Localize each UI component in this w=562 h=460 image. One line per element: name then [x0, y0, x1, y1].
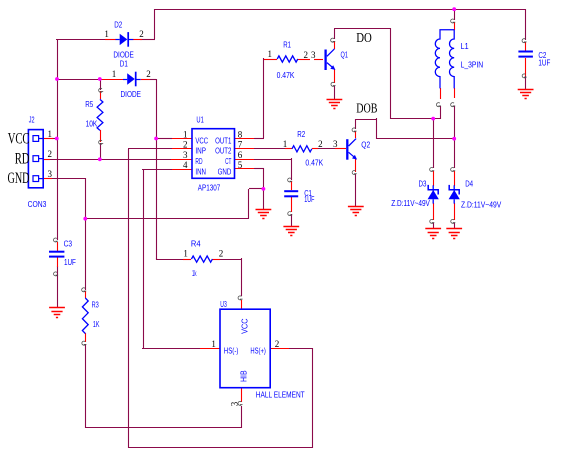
- junction GND row: [83, 217, 87, 221]
- junction DOB L1 right: [452, 137, 456, 141]
- svg-text:5: 5: [238, 160, 243, 170]
- svg-text:10K: 10K: [86, 120, 98, 129]
- pin stub R4 left: [183, 259, 191, 261]
- label GND black: [8, 170, 30, 187]
- pin stub R1 right: [298, 59, 310, 61]
- label R3 1K: [93, 320, 100, 329]
- wire Q1 collector up: [334, 29, 336, 39]
- U1 pin names: [195, 136, 231, 176]
- label L_3PIN: [461, 60, 484, 69]
- pin number U3-3 rotated: [229, 401, 239, 406]
- wire U3 HS+ row: [289, 348, 313, 350]
- pin stub Q2 base: [335, 148, 346, 150]
- svg-text:DO: DO: [356, 30, 372, 45]
- wire GND J2 pin3: [52, 178, 85, 180]
- pin number R2-1: [283, 139, 288, 149]
- wire D3 branch down: [433, 119, 435, 168]
- svg-text:2: 2: [47, 149, 52, 159]
- svg-text:R3: R3: [92, 300, 100, 309]
- wire OUT1 riser to R1: [263, 58, 265, 138]
- pin number U1-7: [238, 140, 243, 150]
- label R4 1k: [192, 269, 197, 278]
- svg-text:3: 3: [311, 50, 316, 60]
- wire INP vertical: [128, 149, 130, 448]
- label R4: [191, 239, 201, 248]
- pin mark Q2 emitter: [352, 170, 357, 174]
- label C2 1UF: [538, 59, 550, 68]
- wire C2 drop: [525, 9, 527, 89]
- junction U1 GND: [262, 187, 266, 191]
- svg-text:HS(+): HS(+): [250, 346, 266, 355]
- pin number Q2-3: [333, 139, 338, 149]
- wire DO to L1 left: [390, 118, 440, 120]
- wire GND jog right: [249, 188, 263, 190]
- svg-text:J2: J2: [29, 116, 35, 125]
- pin stub U1-4: [172, 169, 192, 171]
- junction D1 cathode VCC line: [154, 137, 158, 141]
- junction R5 bottom RD: [98, 157, 102, 161]
- svg-text:1: 1: [183, 129, 188, 139]
- diode D2: [116, 32, 134, 47]
- svg-text:D2: D2: [114, 20, 122, 29]
- label D3: [419, 179, 427, 188]
- svg-text:R4: R4: [191, 239, 201, 248]
- wire L1 right lower to D4: [454, 106, 456, 168]
- svg-text:2: 2: [139, 29, 144, 39]
- ground D3: [425, 229, 441, 239]
- label L1: [461, 42, 469, 51]
- svg-text:VCC: VCC: [195, 136, 208, 145]
- wire R5 bottom to RD: [100, 143, 102, 159]
- pin number D2-2: [139, 29, 144, 39]
- label D2 DIODE: [113, 51, 133, 60]
- label R2: [297, 130, 305, 139]
- pin stub R3 top: [85, 291, 87, 298]
- U3 pin name VCC rotated: [240, 318, 249, 334]
- op-amp U1 AP1307 body: [192, 129, 235, 179]
- pin number U1-3: [183, 150, 188, 160]
- wire D4 bottom to ground: [454, 223, 456, 229]
- svg-text:R2: R2: [297, 130, 305, 139]
- label U1: [196, 115, 204, 124]
- pin stub D3 bottom: [433, 203, 435, 220]
- pin number R2-2: [318, 139, 323, 149]
- pin stub Q2 collector: [355, 131, 357, 138]
- svg-text:1: 1: [112, 69, 117, 79]
- wire L1 left lower: [440, 106, 442, 119]
- pin stub U1-1: [172, 138, 192, 140]
- svg-text:L1: L1: [461, 42, 469, 51]
- pin mark C3 bottom: [54, 272, 59, 276]
- pin mark C2 top: [522, 39, 527, 43]
- junction R5 top: [98, 77, 102, 81]
- pin stub U1-6: [234, 159, 254, 161]
- wire R4 row: [156, 259, 242, 261]
- ground C1: [283, 227, 299, 236]
- svg-text:VCC: VCC: [240, 318, 249, 334]
- resistor R4: [191, 256, 212, 262]
- label R1: [283, 40, 291, 49]
- pin mark R5 top: [99, 88, 104, 92]
- ground U1 pin5: [256, 210, 272, 219]
- svg-text:INN: INN: [195, 167, 206, 176]
- svg-text:0.47K: 0.47K: [305, 158, 323, 167]
- ground C3: [49, 308, 65, 318]
- wire INN to U1 pin4: [142, 169, 172, 171]
- svg-text:1: 1: [267, 49, 272, 59]
- svg-text:RD: RD: [15, 150, 30, 167]
- wire U1 pin8 stub: [254, 138, 264, 140]
- pin stub R2 right: [312, 148, 318, 150]
- pin stub C3 top: [57, 242, 59, 251]
- pin mark L1 right bottom: [451, 103, 456, 107]
- junction DO L1 left: [431, 117, 435, 121]
- pin stub R3 bottom: [85, 333, 87, 342]
- svg-text:HALL ELEMENT: HALL ELEMENT: [256, 390, 305, 399]
- svg-text:Q1: Q1: [341, 51, 349, 60]
- pin stub D1 right: [141, 79, 150, 81]
- label AP1307: [198, 184, 221, 193]
- svg-text:3: 3: [183, 150, 188, 160]
- wire D3 bottom to ground: [433, 223, 435, 229]
- connector J2: [28, 130, 43, 188]
- pin mark D3 bottom: [430, 219, 435, 223]
- wire Q2 collector up: [355, 119, 357, 129]
- label D4 value: [461, 200, 502, 209]
- label D2: [114, 20, 122, 29]
- resistor R5: [97, 99, 103, 130]
- svg-text:D3: D3: [419, 179, 427, 188]
- pin number J2-1: [47, 129, 52, 139]
- pin number U1-4: [183, 160, 188, 170]
- pin mark Q1 collector: [331, 38, 336, 42]
- pin stub Q1 collector: [334, 41, 336, 49]
- wire J2 pin1 to vertical: [52, 138, 58, 140]
- label R5 10K: [86, 120, 98, 129]
- wire L1 top to rail: [454, 9, 456, 20]
- svg-text:INP: INP: [195, 147, 206, 156]
- wire R2 row segments: [254, 148, 335, 150]
- wire INN to hall HS(-): [142, 348, 200, 350]
- label VCC black: [8, 131, 30, 148]
- pin number U1-2: [183, 140, 188, 150]
- label DOB: [356, 101, 377, 116]
- svg-text:2: 2: [146, 69, 151, 79]
- svg-text:1UF: 1UF: [64, 258, 76, 267]
- capacitor C1: [284, 191, 298, 196]
- pin number U1-6: [238, 150, 243, 160]
- svg-text:Z.D:11V~49V: Z.D:11V~49V: [391, 199, 430, 208]
- pin mark Q1 emitter: [331, 82, 336, 86]
- U3 pin name HS(+): [250, 346, 266, 355]
- svg-text:1UF: 1UF: [304, 195, 314, 204]
- pin stub D4 bottom: [454, 203, 456, 220]
- junction D1 anode VCC: [55, 77, 59, 81]
- svg-text:2: 2: [275, 339, 280, 349]
- wire DOB row: [376, 138, 454, 140]
- wire top VCC rail: [154, 9, 526, 11]
- label HALL ELEMENT: [256, 390, 305, 399]
- svg-text:L_3PIN: L_3PIN: [461, 60, 484, 69]
- label R1 0.47K: [277, 71, 295, 80]
- svg-text:1: 1: [104, 29, 109, 39]
- pin stub Q2 emitter: [355, 159, 357, 172]
- pin number U1-8: [238, 129, 243, 139]
- inductor L1: [435, 30, 454, 89]
- pin stub C2 top: [525, 42, 527, 51]
- hall element U3 body: [220, 309, 270, 388]
- svg-text:AP1307: AP1307: [198, 184, 221, 193]
- pin stub J2-1: [43, 138, 53, 140]
- pin number R1-2: [304, 50, 309, 60]
- pin stub C3 bottom: [57, 257, 59, 267]
- label RD black: [15, 150, 30, 167]
- capacitor C3: [49, 252, 64, 257]
- wire DOB jog down: [376, 118, 378, 139]
- pin stub J2-2: [43, 159, 50, 161]
- pin stub U3 HS+: [270, 348, 289, 350]
- svg-text:CT: CT: [225, 157, 231, 166]
- pin stub R5 bottom: [100, 130, 102, 142]
- label U3: [220, 300, 227, 309]
- svg-text:4: 4: [183, 160, 188, 170]
- label C3: [64, 240, 73, 249]
- label D4: [465, 180, 473, 189]
- wire Q2 emitter to ground: [355, 174, 357, 206]
- svg-text:7: 7: [238, 140, 243, 150]
- svg-text:0.47K: 0.47K: [277, 71, 295, 80]
- pin number R1-1: [267, 49, 272, 59]
- pin number Q1-3: [311, 50, 316, 60]
- svg-text:DIODE: DIODE: [121, 90, 141, 99]
- pin mark R5 bottom: [99, 140, 104, 144]
- svg-text:DIODE: DIODE: [113, 51, 133, 60]
- pin stub C1 bottom: [291, 197, 293, 212]
- pin mark U3 top: [238, 296, 243, 300]
- pin mark C1 top: [288, 178, 293, 182]
- ground D4: [446, 229, 462, 239]
- svg-text:VCC: VCC: [8, 131, 30, 148]
- pin mark U3 bottom: [238, 401, 243, 405]
- pin number R4-2: [219, 249, 224, 259]
- pin stub U1-5: [234, 168, 254, 170]
- wire D2 cathode riser: [154, 9, 156, 39]
- wire Q1 emitter to ground: [334, 86, 336, 100]
- svg-text:R1: R1: [283, 40, 291, 49]
- pin stub R1 left: [264, 59, 277, 61]
- pin stub L1 top: [454, 22, 456, 30]
- pin mark R3 bottom: [82, 341, 87, 345]
- wire U1 pin5 stub: [254, 168, 264, 170]
- svg-text:6: 6: [238, 150, 243, 160]
- label Q1: [341, 51, 349, 60]
- wire hall bottom row: [128, 447, 312, 449]
- pin stub Q1 base: [314, 59, 323, 61]
- pin number J2-3: [47, 169, 52, 179]
- svg-text:Z.D:11V~49V: Z.D:11V~49V: [461, 200, 502, 209]
- label C1: [304, 189, 312, 198]
- pin mark R3 top: [82, 288, 87, 292]
- zener diode D3: [428, 185, 439, 204]
- wire VCC junction to U1 pin1: [156, 138, 172, 140]
- pin number U3-2: [275, 339, 280, 349]
- wire R4 to U3 VCC: [241, 258, 243, 296]
- U3 pin name HIB rotated: [240, 370, 249, 382]
- label J2: [29, 116, 35, 125]
- svg-text:R5: R5: [85, 100, 93, 109]
- label D3 value: [391, 199, 430, 208]
- pin mark D4 bottom: [451, 219, 456, 223]
- pin stub U3 VCC: [241, 300, 243, 310]
- pin stub D2 right: [133, 39, 142, 41]
- svg-text:HIB: HIB: [240, 370, 249, 382]
- wire U1 pin5 down to ground: [263, 168, 265, 209]
- svg-text:U1: U1: [196, 115, 204, 124]
- pin number D1-1: [112, 69, 117, 79]
- pin number U1-1: [183, 129, 188, 139]
- pin number U3-1: [211, 339, 216, 349]
- svg-text:3: 3: [47, 169, 52, 179]
- pin stub L1 right bottom: [454, 88, 456, 98]
- label D1: [120, 60, 128, 69]
- resistor R2: [292, 146, 312, 152]
- transistor Q2: [347, 139, 357, 160]
- svg-text:1UF: 1UF: [538, 59, 550, 68]
- svg-text:8: 8: [238, 129, 243, 139]
- pin stub L1 left bottom: [440, 88, 442, 99]
- pin mark D3 top: [430, 167, 435, 171]
- wire INP to U1 pin2: [128, 148, 172, 150]
- pin stub R2 left: [285, 148, 292, 150]
- ground Q2 emitter: [348, 207, 364, 216]
- pin mark L1 left bottom: [436, 103, 441, 107]
- label R3: [92, 300, 100, 309]
- label R2 0.47K: [305, 158, 323, 167]
- wire INN vertical: [143, 170, 145, 348]
- svg-text:U3: U3: [220, 300, 227, 309]
- pin stub U1-2: [172, 148, 192, 150]
- pin stub U3 HIB: [241, 387, 243, 402]
- pin stub D2 left: [105, 39, 116, 41]
- diode D1: [123, 72, 141, 87]
- svg-text:1K: 1K: [93, 320, 100, 329]
- wire GND horizontal row: [85, 218, 249, 220]
- pin stub U3 HS-: [200, 348, 220, 350]
- pin stub D4 top: [454, 171, 456, 186]
- U3 pin name HS(-): [224, 346, 239, 355]
- wire VCC vertical left: [57, 39, 59, 240]
- svg-text:CON3: CON3: [28, 200, 47, 209]
- ground C2: [518, 90, 534, 99]
- label CON3: [28, 200, 47, 209]
- pin number U1-5: [238, 160, 243, 170]
- svg-text:Q2: Q2: [361, 141, 370, 150]
- pin stub C1 top: [291, 181, 293, 190]
- label R5: [85, 100, 93, 109]
- wire D2 anode from VCC vert: [56, 39, 155, 41]
- pin stub D1 left: [102, 79, 123, 81]
- pin mark Q2 collector: [352, 128, 357, 132]
- zener diode D4: [449, 185, 460, 204]
- svg-text:1: 1: [283, 139, 288, 149]
- label C3 1UF: [64, 258, 76, 267]
- label C1 1UF: [304, 195, 314, 204]
- pin stub R4 right: [212, 259, 220, 261]
- pin number D2-1: [104, 29, 109, 39]
- svg-text:2: 2: [219, 249, 224, 259]
- label Q2: [361, 141, 370, 150]
- pin number J2-2: [47, 149, 52, 159]
- svg-text:GND: GND: [8, 170, 30, 187]
- pin stub C2 bottom: [525, 58, 527, 76]
- resistor R1: [277, 56, 298, 62]
- svg-text:OUT2: OUT2: [215, 147, 232, 156]
- svg-text:2: 2: [304, 50, 309, 60]
- wire RD to U1 pin3: [50, 159, 172, 161]
- pin mark C2 bottom: [522, 74, 527, 78]
- pin stub U1-7: [234, 148, 254, 150]
- pin mark C1 bottom: [288, 212, 293, 216]
- junction J2 pin1 VCC: [55, 137, 59, 141]
- label C2: [538, 51, 546, 60]
- svg-text:D4: D4: [465, 180, 473, 189]
- pin stub Q1 emitter: [334, 69, 336, 83]
- svg-text:C3: C3: [64, 240, 73, 249]
- wire GND vertical to R3: [85, 178, 87, 428]
- pin stub D3 top: [433, 171, 435, 186]
- wire R5 top lead: [100, 78, 102, 90]
- resistor R3: [82, 298, 88, 334]
- svg-text:OUT1: OUT1: [215, 136, 232, 145]
- svg-text:1: 1: [47, 129, 52, 139]
- svg-text:2: 2: [183, 140, 188, 150]
- svg-text:HS(-): HS(-): [224, 346, 239, 355]
- wire GND jog up: [248, 189, 250, 219]
- svg-text:1: 1: [183, 249, 188, 259]
- capacitor C2: [518, 52, 533, 57]
- pin mark C3 top: [53, 238, 58, 242]
- pin stub U1-8: [234, 138, 254, 140]
- ground Q1 emitter: [327, 100, 343, 109]
- pin number R4-1: [183, 249, 188, 259]
- wire DO down: [390, 28, 392, 119]
- wire R4 left riser: [156, 258, 158, 260]
- wire D1 cathode to VCC line and down to R4: [156, 79, 158, 259]
- wire D1 anode row: [57, 79, 156, 81]
- pin stub J2-3: [43, 178, 52, 180]
- svg-text:1: 1: [211, 339, 216, 349]
- pin mark D4 top: [451, 167, 456, 171]
- wire U3 HIB down: [241, 406, 243, 428]
- junction L1 top rail: [452, 7, 456, 11]
- svg-text:GND: GND: [218, 167, 232, 176]
- svg-text:3: 3: [333, 139, 338, 149]
- pin stub U1-3: [171, 159, 192, 161]
- wire U3 HS+ down: [312, 348, 314, 448]
- wire DOB jog top: [355, 119, 377, 121]
- svg-text:2: 2: [318, 139, 323, 149]
- pin stub R5 top: [100, 91, 102, 99]
- svg-text:DOB: DOB: [356, 101, 377, 116]
- pin number D1-2: [146, 69, 151, 79]
- label DO: [356, 30, 372, 45]
- svg-text:D1: D1: [120, 60, 128, 69]
- svg-text:1k: 1k: [192, 269, 197, 278]
- wire CT to C1: [254, 158, 292, 226]
- wire R3 bottom to hall HIB: [85, 427, 242, 429]
- svg-text:RD: RD: [195, 157, 202, 166]
- wire DO top: [334, 28, 390, 30]
